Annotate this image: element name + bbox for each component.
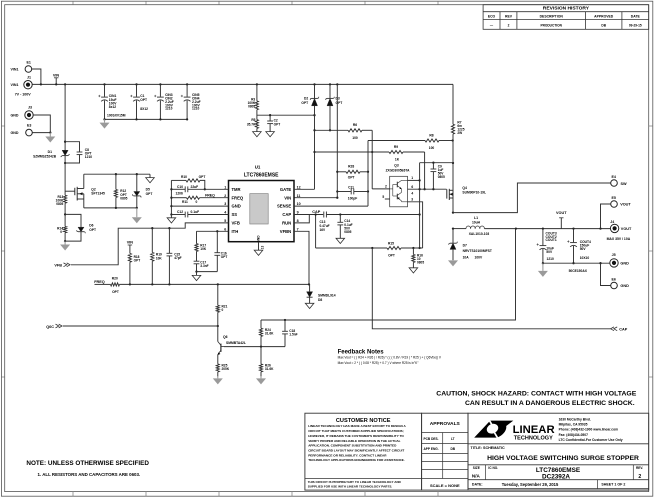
title block main box [468, 413, 649, 490]
wire Q3 output pins 6 4 [408, 188, 447, 190]
wire Q2 cluster bottom [84, 207, 137, 209]
svg-text:VIN: VIN [127, 241, 134, 245]
wire VFB pin5 [71, 223, 229, 265]
svg-text:3.3nF: 3.3nF [200, 264, 208, 268]
svg-text:100V: 100V [475, 255, 484, 259]
svg-text:TECHNOLOGY: TECHNOLOGY [514, 435, 553, 441]
svg-text:GATE: GATE [280, 187, 292, 192]
capacitor C12 pin4 SS [171, 214, 185, 216]
svg-text:R8: R8 [429, 133, 433, 137]
svg-text:Fax: (408)434-0507: Fax: (408)434-0507 [559, 433, 588, 437]
svg-text:1.5nF: 1.5nF [289, 333, 297, 337]
svg-text:COUT1: COUT1 [546, 238, 557, 242]
capacitor C13 [323, 212, 325, 218]
ground under D7 [452, 259, 454, 261]
capacitor CIN2 CIN3 [159, 83, 161, 85]
border zone tick marks [72, 1, 74, 4]
svg-text:1206: 1206 [176, 192, 184, 196]
svg-text:VIN1: VIN1 [11, 83, 19, 87]
resistor R8 [368, 140, 425, 142]
wire RUN pin8 [294, 215, 309, 223]
resistor R7 [452, 84, 454, 124]
svg-text:E3: E3 [27, 123, 31, 127]
svg-text:0805: 0805 [248, 105, 255, 109]
svg-text:8x12: 8x12 [109, 105, 117, 109]
svg-text:MAX 35V / 10A: MAX 35V / 10A [607, 237, 631, 241]
ground input caps [104, 119, 106, 122]
svg-text:OPT: OPT [134, 259, 141, 263]
svg-text:OPT: OPT [146, 192, 153, 196]
net arrow CAP right [611, 327, 618, 331]
svg-text:1. ALL RESISTORS AND CAPACITO: 1. ALL RESISTORS AND CAPACITORS ARE 0603… [38, 472, 141, 477]
svg-text:C11: C11 [348, 185, 354, 189]
svg-text:SENSE: SENSE [277, 204, 291, 209]
jack J5 GND [610, 259, 618, 267]
svg-text:SUPPLIED FOR USE WITH LINEAR T: SUPPLIED FOR USE WITH LINEAR TECHNOLOGY … [308, 485, 393, 489]
svg-text:Phone: (408)432-1900 www.lin: Phone: (408)432-1900 www.linear.com [559, 428, 618, 432]
wire E6 to ground bus [601, 263, 611, 285]
svg-text:D8: D8 [318, 298, 322, 302]
capacitor C18 [284, 320, 286, 331]
svg-text:LTC7860EMSE: LTC7860EMSE [244, 173, 279, 179]
svg-text:D7: D7 [463, 243, 467, 247]
svg-text:Q3: Q3 [394, 164, 399, 168]
svg-text:7V - 100V: 7V - 100V [15, 92, 32, 96]
svg-text:5: 5 [382, 195, 384, 199]
ground under R14 [64, 241, 66, 244]
svg-text:8: 8 [297, 219, 299, 223]
wire R6 down to gate line [371, 130, 373, 189]
date row [596, 480, 598, 489]
zener diode D1 [64, 83, 66, 85]
turret E1 [25, 66, 32, 73]
capacitor C11 [337, 191, 351, 193]
svg-text:47pF: 47pF [174, 256, 181, 260]
resistor R26 [259, 364, 262, 372]
svg-text:31.6K: 31.6K [265, 367, 274, 371]
resistor R3 [256, 83, 258, 85]
svg-text:Feedback Notes: Feedback Notes [338, 349, 385, 355]
svg-text:11: 11 [297, 194, 301, 198]
svg-text:FREQ: FREQ [205, 193, 215, 197]
svg-text:100pF: 100pF [348, 196, 358, 200]
svg-text:ITH: ITH [232, 229, 239, 234]
svg-text:N/A: N/A [472, 474, 481, 479]
resistor R16 [412, 248, 414, 254]
svg-text:50V: 50V [546, 250, 553, 254]
svg-text:VERIFY PROPER AND RELIABLE OPE: VERIFY PROPER AND RELIABLE OPERATION IN … [308, 439, 400, 443]
svg-text:10K: 10K [156, 256, 163, 260]
wire Q3 pin5 [385, 198, 390, 200]
capacitor C16 [216, 231, 218, 252]
ground U1 exposed pad [254, 250, 263, 255]
svg-text:Q4: Q4 [462, 186, 467, 190]
svg-text:OPT: OPT [274, 123, 281, 127]
svg-text:DB: DB [601, 23, 606, 27]
svg-text:SHEET 1 OF 2: SHEET 1 OF 2 [601, 483, 625, 487]
capacitor C1 [135, 83, 137, 85]
svg-text:1210: 1210 [547, 257, 555, 261]
svg-text:APPLICATION. COMPONENT SUBSTI: APPLICATION. COMPONENT SUBSTITUTION AND … [308, 444, 397, 448]
svg-text:13: 13 [261, 246, 265, 250]
svg-text:DATE:: DATE: [472, 483, 483, 487]
svg-text:3: 3 [224, 202, 226, 206]
turret E4 SW [611, 180, 618, 187]
svg-text:E6: E6 [612, 278, 616, 282]
ground output caps [542, 263, 544, 271]
ground Q2 cluster bottom [136, 208, 138, 217]
capacitor C8 [64, 141, 66, 143]
svg-text:REV: REV [505, 15, 513, 19]
svg-text:1K: 1K [395, 158, 400, 162]
svg-text:R20: R20 [112, 276, 118, 280]
svg-text:100SXV15M: 100SXV15M [107, 113, 126, 117]
wire GATE pin12 [294, 188, 315, 190]
wire FREQ bus [120, 283, 310, 285]
svg-text:VIN1: VIN1 [11, 68, 19, 72]
resistor R5 [255, 120, 258, 129]
svg-text:0805: 0805 [120, 196, 127, 200]
svg-text:OPT: OPT [89, 228, 96, 232]
svg-text:PCB DES.: PCB DES. [424, 437, 439, 441]
svg-text:NOTE: UNLESS OTHERWISE SPECIFI: NOTE: UNLESS OTHERWISE SPECIFIED [26, 460, 149, 467]
net label CAP [294, 214, 323, 216]
svg-text:DESCRIPTION: DESCRIPTION [540, 15, 564, 19]
capacitor C15 [168, 228, 170, 253]
svg-text:VIN: VIN [53, 73, 60, 77]
svg-text:C12: C12 [177, 210, 183, 214]
wire CAP node down [315, 215, 317, 249]
wire Q6 base row [224, 346, 285, 348]
svg-text:R5: R5 [251, 118, 255, 122]
svg-text:5: 5 [224, 219, 226, 223]
wire VFBN pin7 [294, 231, 309, 284]
svg-text:NRVTS10100MFST: NRVTS10100MFST [463, 249, 492, 253]
ground compensation [196, 272, 198, 276]
resistor R9 [315, 151, 390, 153]
svg-text:J1: J1 [27, 75, 31, 79]
resistor R24 [260, 320, 262, 328]
svg-text:VOUT: VOUT [620, 203, 631, 207]
diode D3 [329, 83, 331, 85]
svg-text:16V: 16V [320, 228, 327, 232]
svg-text:R6: R6 [353, 123, 357, 127]
resistor R20 [111, 283, 120, 286]
capacitor C2 [269, 115, 271, 121]
ground under R26 [260, 376, 262, 378]
svg-text:OPT: OPT [301, 101, 308, 105]
svg-text:CAP: CAP [619, 327, 627, 331]
svg-text:APPROVALS: APPROVALS [430, 421, 461, 427]
svg-text:ZXGD3005E6TA: ZXGD3005E6TA [386, 168, 411, 172]
jack J4 VOUT [610, 224, 618, 232]
svg-text:Max Vout = ( ( R24 + R26 ) / R: Max Vout = ( ( R24 + R26 ) / R26) * ( ( … [338, 356, 442, 360]
node R3 R5 [257, 114, 315, 116]
op-amp U1 LTC7860EMSE [229, 181, 295, 242]
wire CAP run to arrow [372, 248, 610, 329]
svg-text:0.1uF: 0.1uF [191, 210, 200, 214]
capacitor C10 pin1 [171, 188, 185, 190]
wire R13 to R14 node [64, 203, 66, 226]
svg-text:E4: E4 [612, 175, 616, 179]
svg-text:LINEAR TECHNOLOGY HAS MADE A B: LINEAR TECHNOLOGY HAS MADE A BEST EFFORT… [308, 424, 406, 428]
capacitor C14 [339, 215, 341, 223]
svg-text:L1: L1 [474, 216, 478, 220]
node VIN input rail [32, 83, 453, 85]
svg-text:2: 2 [508, 23, 510, 27]
svg-text:PRODUCTION: PRODUCTION [540, 23, 562, 27]
jack J1 VIN1 [24, 81, 32, 89]
svg-text:APPROVED: APPROVED [594, 15, 614, 19]
svg-text:SFT1345: SFT1345 [91, 192, 105, 196]
svg-text:SCALE = NONE: SCALE = NONE [430, 483, 460, 488]
svg-text:0: 0 [222, 308, 224, 312]
svg-text:VOUT: VOUT [621, 227, 632, 231]
svg-text:CAUTION, SHOCK HAZARD: CONTACT: CAUTION, SHOCK HAZARD: CONTACT WITH HIGH… [436, 390, 636, 397]
svg-text:J3: J3 [28, 106, 32, 110]
svg-text:HOWEVER, IT REMAINS THE CUSTOM: HOWEVER, IT REMAINS THE CUSTOMER'S RESPO… [308, 434, 404, 438]
resistor R13 [64, 195, 67, 203]
svg-text:CAP: CAP [312, 210, 320, 214]
svg-text:J4: J4 [610, 220, 614, 224]
svg-text:1: 1 [411, 176, 413, 180]
svg-text:REVISION HISTORY: REVISION HISTORY [543, 6, 590, 12]
ground Q2 cluster top [149, 174, 151, 177]
jack J3 GND [25, 111, 33, 119]
transistor Q6 SMMBTA42L [217, 326, 219, 342]
wire Q3 pin2 input [372, 188, 390, 190]
svg-text:100: 100 [429, 146, 435, 150]
svg-text:31.6K: 31.6K [265, 332, 274, 336]
svg-text:GND: GND [620, 262, 629, 266]
svg-text:GND: GND [11, 114, 19, 118]
svg-text:U1: U1 [255, 164, 261, 169]
wire Q4 drain SW node [452, 211, 454, 213]
svg-text:VFB: VFB [232, 221, 240, 226]
wire E5 to VOUT rail [601, 204, 611, 229]
capacitor CIN4 CIN5 [186, 83, 188, 85]
svg-text:SUM90P10-19L: SUM90P10-19L [462, 191, 486, 195]
svg-text:CIRCUIT BOARD LAYOUT MAY SIGNI: CIRCUIT BOARD LAYOUT MAY SIGNIFICANTLY A… [308, 448, 404, 452]
wire pin3 GND [171, 205, 228, 207]
wire ITH pin6 [197, 230, 229, 232]
driver Q3 ZXGD3005E6TA [390, 176, 408, 207]
svg-text:Milpitas, CA 95035: Milpitas, CA 95035 [559, 423, 588, 427]
resistor R19 [151, 228, 153, 252]
svg-text:OPT: OPT [336, 101, 343, 105]
wire Q2 cluster top rail [84, 173, 150, 175]
customer notice box [305, 413, 422, 490]
resistor R17 [196, 231, 198, 243]
wire input cap ground bus [105, 118, 188, 120]
svg-text:E1: E1 [27, 60, 31, 64]
svg-text:10K: 10K [200, 247, 207, 251]
resistor R10 [171, 179, 186, 181]
resistor R11 pin2 FREQ [171, 197, 186, 199]
capacitor COUT4 [573, 229, 575, 243]
svg-text:LTC Confidential-For Customer: LTC Confidential-For Customer Use Only [559, 438, 623, 442]
svg-text:Q6C: Q6C [46, 325, 54, 329]
svg-text:LT: LT [451, 437, 455, 441]
svg-text:OPT: OPT [140, 98, 147, 102]
svg-text:R10: R10 [181, 175, 187, 179]
svg-text:OPT: OPT [112, 290, 119, 294]
svg-text:LINEAR: LINEAR [513, 424, 555, 436]
svg-text:PERFORMANCE OR RELIABILITY. C: PERFORMANCE OR RELIABILITY. CONTACT LINE… [308, 453, 387, 457]
capacitor CIN1 [103, 83, 105, 85]
svg-text:1: 1 [224, 185, 226, 189]
svg-text:FREQ: FREQ [94, 280, 105, 284]
wire Q4 gate [446, 188, 448, 191]
svg-text:GND: GND [620, 284, 629, 288]
ground U1 left bus [170, 216, 172, 218]
svg-text:GND: GND [11, 131, 19, 135]
resistor R25 [217, 355, 219, 364]
svg-text:GND: GND [232, 204, 241, 209]
wire C9 top link [420, 162, 453, 164]
svg-text:DATE: DATE [631, 15, 641, 19]
svg-text:CUSTOMER NOTICE: CUSTOMER NOTICE [336, 418, 391, 424]
turret E5 VOUT [611, 201, 618, 208]
size row [484, 465, 486, 480]
transistor Q2 SFT1345 [65, 190, 75, 192]
turret E3 [26, 129, 33, 136]
resistor R21 [217, 284, 219, 305]
svg-text:205K: 205K [222, 367, 230, 371]
svg-text:FREQ: FREQ [232, 195, 244, 200]
wire rail to VIN pin [336, 83, 338, 85]
svg-text:10A: 10A [463, 255, 470, 259]
resistor R18 [128, 253, 131, 262]
svg-text:1210: 1210 [85, 155, 93, 159]
svg-text:0: 0 [196, 200, 198, 204]
svg-text:10X10: 10X10 [580, 256, 590, 260]
ground under C2 [266, 132, 275, 137]
svg-text:OPT: OPT [221, 255, 228, 259]
svg-text:CIRCUIT THAT MEETS CUSTOMER-SU: CIRCUIT THAT MEETS CUSTOMER-SUPPLIED SPE… [308, 429, 404, 433]
wire R9 down to driver output [424, 152, 426, 189]
svg-text:22uF: 22uF [191, 185, 199, 189]
svg-text:35.7K: 35.7K [247, 122, 256, 126]
ground at input connectors [49, 133, 51, 137]
svg-text:Max Vout = 2 * ( ( 0.08 * R25): Max Vout = 2 * ( ( 0.08 * R25) + 0.7 ) V… [338, 361, 419, 365]
ground under C14 [336, 238, 345, 243]
svg-text:CAP: CAP [282, 212, 291, 217]
svg-text:0805: 0805 [344, 230, 351, 234]
svg-text:50CE150AX: 50CE150AX [569, 269, 588, 273]
wire Q3 pin1 [408, 179, 420, 181]
turret E6 GND [611, 282, 618, 289]
wire R7 to Q4 [452, 162, 454, 164]
wire SENSE pin10 [294, 205, 368, 207]
node VOUT rail [516, 228, 611, 230]
diode D7 NRVTS10100MFST [452, 229, 454, 244]
svg-text:12: 12 [297, 185, 301, 189]
svg-text:SS: SS [232, 212, 238, 217]
wire J3/E3 to ground [33, 115, 50, 133]
svg-text:50V: 50V [580, 247, 587, 251]
svg-text:1210: 1210 [165, 107, 173, 111]
svg-text:R28: R28 [348, 164, 354, 168]
ground under D8 [305, 303, 314, 308]
svg-text:E5: E5 [612, 196, 616, 200]
capacitor COUT1 COUT2 COUT3 [542, 229, 544, 246]
U1 pin 13 GND stub [258, 242, 260, 251]
ground under R5 [253, 132, 262, 137]
svg-text:TECHNOLOGY APPLICATIONS ENGINE: TECHNOLOGY APPLICATIONS ENGINEERING FOR … [308, 458, 405, 462]
wire Q6C line [63, 325, 218, 327]
svg-text:SMMBTA42L: SMMBTA42L [226, 341, 246, 345]
svg-text:D1: D1 [48, 150, 52, 154]
svg-text:4: 4 [411, 192, 413, 196]
svg-text:OPT: OPT [199, 175, 206, 179]
transistor Q4 SUM90P10-19L [446, 190, 448, 199]
svg-text:SZMMSZ5242B: SZMMSZ5242B [33, 154, 57, 158]
svg-text:9: 9 [297, 211, 299, 215]
svg-text:GND: GND [256, 235, 260, 243]
diode D5 [136, 173, 138, 175]
svg-text:CAN RESULT IN A DANGEROUS ELEC: CAN RESULT IN A DANGEROUS ELECTRIC SHOCK… [465, 400, 635, 407]
svg-text:4: 4 [224, 211, 226, 215]
svg-text:VFBN: VFBN [280, 229, 291, 234]
svg-text:RUN: RUN [282, 221, 291, 226]
diode D8 SMMDL914 [309, 284, 311, 291]
resistor R28 [337, 171, 346, 173]
svg-text:Q6: Q6 [223, 335, 228, 339]
wire E1 to rail [32, 69, 41, 84]
logo Linear Technology [474, 420, 513, 439]
svg-text:2: 2 [385, 185, 387, 189]
svg-text:SIZE: SIZE [473, 466, 480, 470]
wire rail to R7 [452, 83, 454, 85]
svg-text:8X12: 8X12 [140, 107, 148, 111]
svg-text:XAL1010-103: XAL1010-103 [469, 232, 490, 236]
svg-text:C10: C10 [177, 185, 183, 189]
svg-text:Tuesday, September 29, 2015: Tuesday, September 29, 2015 [502, 482, 559, 487]
svg-text:10uH: 10uH [472, 221, 481, 225]
wire U1 left bus [170, 180, 172, 215]
svg-text:J5: J5 [612, 253, 616, 257]
svg-text:ECO: ECO [488, 15, 496, 19]
svg-text:0: 0 [60, 230, 62, 234]
svg-text:VIN: VIN [284, 195, 291, 200]
svg-text:2: 2 [638, 474, 641, 480]
svg-text:DB: DB [450, 447, 455, 451]
inductor L1 [453, 228, 466, 230]
svg-text:REV.: REV. [636, 466, 643, 470]
svg-text:6: 6 [224, 227, 226, 231]
ground under R25 [217, 376, 219, 378]
wire feedback sense [261, 229, 516, 320]
svg-text:TITLE: SCHEMATIC: TITLE: SCHEMATIC [471, 446, 505, 450]
wire SW to E4 [453, 183, 611, 213]
wire VIN pin11 [294, 197, 337, 199]
svg-text:OPT: OPT [388, 253, 395, 257]
capacitor C9 [432, 163, 434, 169]
wire R8 left down to sense [367, 141, 369, 207]
svg-text:VFB: VFB [54, 264, 62, 268]
ground under R16 [409, 268, 418, 273]
svg-text:SMMDL914: SMMDL914 [318, 293, 336, 297]
svg-text:IC NO.: IC NO. [488, 466, 498, 470]
resistor R14 [64, 226, 67, 232]
svg-text:R9: R9 [394, 145, 398, 149]
svg-text:VOUT: VOUT [556, 211, 567, 215]
resistor R15 [387, 246, 401, 249]
svg-text:100: 100 [352, 136, 358, 140]
svg-text:R15: R15 [388, 241, 394, 245]
svg-text:R11: R11 [182, 200, 188, 204]
